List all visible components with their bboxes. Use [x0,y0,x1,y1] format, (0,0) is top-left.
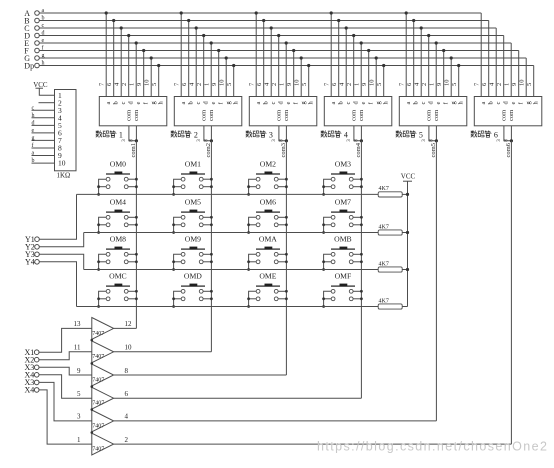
svg-text:com: com [200,110,207,121]
svg-text:OMA: OMA [259,234,277,243]
svg-text:e: e [210,102,217,105]
svg-text:OM4: OM4 [110,197,126,206]
svg-text:9: 9 [511,83,518,86]
svg-text:com: com [208,110,215,121]
svg-text:VCC: VCC [401,173,416,181]
svg-text:1: 1 [129,83,136,86]
svg-text:4: 4 [344,130,348,139]
svg-text:OM8: OM8 [110,234,126,243]
svg-text:5: 5 [226,83,233,86]
svg-text:10: 10 [125,344,133,352]
svg-text:b: b [32,158,35,164]
svg-text:9: 9 [361,83,368,86]
svg-text:2: 2 [125,436,129,444]
svg-text:b: b [187,101,194,104]
svg-text:5: 5 [419,130,423,139]
svg-text:e: e [435,102,442,105]
svg-text:com: com [283,110,290,121]
svg-text:1: 1 [77,436,81,444]
svg-text:1: 1 [504,83,511,86]
svg-text:10: 10 [444,80,451,87]
svg-text:https://blog.csdn.net/chosenOn: https://blog.csdn.net/chosenOne2 [317,440,548,454]
svg-text:2: 2 [421,83,428,86]
svg-text:Y4: Y4 [25,258,35,267]
svg-text:com6: com6 [505,142,512,157]
svg-text:com: com [358,110,365,121]
svg-text:1: 1 [204,83,211,86]
svg-text:10: 10 [294,80,301,87]
svg-text:1: 1 [354,83,361,86]
svg-text:OMD: OMD [184,271,202,280]
svg-text:7407: 7407 [92,401,104,407]
svg-text:1: 1 [119,130,123,139]
svg-text:h: h [42,60,45,66]
svg-text:com: com [508,110,515,121]
svg-text:c: c [195,102,202,105]
svg-text:OM7: OM7 [335,197,351,206]
svg-text:2: 2 [194,130,198,139]
svg-text:com1: com1 [130,143,137,157]
svg-text:10: 10 [58,159,66,168]
svg-text:e: e [510,102,517,105]
svg-text:com: com [425,110,432,121]
svg-text:a: a [255,102,262,105]
svg-text:OME: OME [259,271,276,280]
svg-text:OMF: OMF [335,271,352,280]
svg-text:b: b [112,101,119,104]
svg-text:11: 11 [74,344,81,352]
svg-text:com2: com2 [205,143,212,157]
svg-text:b: b [42,15,45,21]
svg-text:3: 3 [269,130,273,139]
svg-text:a: a [405,102,412,105]
svg-text:9: 9 [436,83,443,86]
svg-text:OM1: OM1 [185,159,201,168]
svg-text:7407: 7407 [92,354,104,360]
svg-text:e: e [42,38,45,44]
svg-text:8: 8 [125,367,129,375]
svg-text:b: b [262,101,269,104]
svg-text:g: g [42,53,45,59]
svg-text:a: a [480,102,487,105]
svg-text:g: g [32,135,35,141]
svg-text:com4: com4 [355,142,362,157]
svg-text:10: 10 [369,80,376,87]
svg-text:9: 9 [77,367,81,375]
svg-text:a: a [180,102,187,105]
svg-text:10: 10 [219,80,226,87]
svg-text:e: e [32,128,35,134]
svg-text:4K7: 4K7 [379,186,389,192]
svg-text:7407: 7407 [92,377,104,383]
svg-text:4K7: 4K7 [379,298,389,304]
svg-text:9: 9 [136,83,143,86]
svg-text:d: d [32,120,35,126]
svg-text:h: h [32,113,35,119]
svg-text:com: com [500,110,507,121]
svg-text:d: d [42,30,45,36]
svg-text:5: 5 [151,83,158,86]
svg-text:e: e [360,102,367,105]
svg-text:7407: 7407 [92,447,104,453]
svg-text:7407: 7407 [92,423,104,429]
svg-text:a: a [42,8,45,14]
svg-text:com: com [125,110,132,121]
svg-text:2: 2 [121,83,128,86]
svg-text:b: b [412,101,419,104]
svg-text:c: c [495,102,502,105]
svg-text:OM2: OM2 [260,159,276,168]
svg-text:b: b [487,101,494,104]
svg-text:1: 1 [429,83,436,86]
svg-text:10: 10 [519,80,526,87]
svg-text:10: 10 [144,80,151,87]
svg-text:6: 6 [494,130,498,139]
svg-text:4K7: 4K7 [379,261,389,267]
svg-text:a: a [330,102,337,105]
svg-text:3: 3 [77,413,81,421]
svg-text:X4: X4 [25,386,35,395]
svg-text:OM0: OM0 [110,159,126,168]
svg-text:a: a [105,102,112,105]
svg-text:12: 12 [125,320,133,328]
svg-text:5: 5 [451,83,458,86]
svg-text:e: e [285,102,292,105]
svg-text:f: f [42,44,44,51]
svg-text:5: 5 [376,83,383,86]
svg-text:1KΩ: 1KΩ [57,172,71,180]
svg-text:com: com [275,110,282,121]
svg-text:OM9: OM9 [185,234,201,243]
svg-text:2: 2 [271,83,278,86]
svg-text:OMB: OMB [334,234,352,243]
svg-text:c: c [270,102,277,105]
svg-text:e: e [135,102,142,105]
svg-text:4: 4 [125,413,129,421]
svg-text:4K7: 4K7 [379,224,389,230]
svg-text:com5: com5 [430,143,437,157]
svg-text:f: f [32,142,34,149]
svg-text:2: 2 [196,83,203,86]
svg-text:2: 2 [496,83,503,86]
svg-text:5: 5 [301,83,308,86]
svg-text:13: 13 [74,320,82,328]
svg-text:OM6: OM6 [260,197,276,206]
svg-text:Dp: Dp [24,61,34,70]
svg-text:c: c [42,23,45,29]
svg-text:OMC: OMC [109,271,127,280]
svg-text:com: com [350,110,357,121]
svg-text:c: c [420,102,427,105]
svg-text:9: 9 [286,83,293,86]
svg-text:c: c [345,102,352,105]
svg-text:com3: com3 [280,143,287,157]
svg-text:5: 5 [526,83,533,86]
svg-text:9: 9 [211,83,218,86]
svg-text:com: com [133,110,140,121]
svg-text:1: 1 [279,83,286,86]
svg-text:OM5: OM5 [185,197,201,206]
svg-text:b: b [337,101,344,104]
svg-text:c: c [32,105,35,111]
svg-text:OM3: OM3 [335,159,351,168]
svg-text:7407: 7407 [92,331,104,337]
svg-text:2: 2 [346,83,353,86]
svg-text:6: 6 [125,390,129,398]
svg-text:a: a [32,151,35,157]
svg-text:5: 5 [77,390,81,398]
svg-text:com: com [433,110,440,121]
svg-text:c: c [120,102,127,105]
